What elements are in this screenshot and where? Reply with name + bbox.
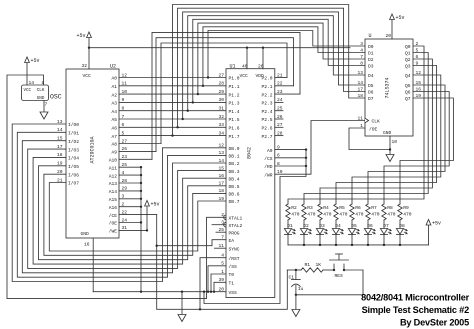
svg-text:+5v: +5v — [396, 15, 405, 21]
svg-text:U: U — [369, 33, 372, 39]
svg-text:20: 20 — [385, 33, 391, 39]
svg-text:8: 8 — [42, 80, 45, 86]
svg-text:R7: R7 — [371, 205, 377, 211]
svg-text:R8: R8 — [387, 205, 393, 211]
svg-text:D7: D7 — [368, 96, 374, 102]
svg-text:A8: A8 — [111, 142, 117, 148]
svg-text:/RST: /RST — [229, 256, 240, 262]
svg-text:P1.6: P1.6 — [229, 126, 240, 132]
svg-text:I/O0: I/O0 — [68, 122, 79, 128]
svg-text:SYNC: SYNC — [229, 246, 240, 252]
svg-text:27: 27 — [218, 72, 224, 78]
svg-text:DB.2: DB.2 — [229, 161, 240, 167]
svg-text:4: 4 — [360, 47, 363, 53]
svg-text:A5: A5 — [111, 117, 117, 123]
svg-text:23: 23 — [122, 154, 128, 160]
svg-text:3: 3 — [122, 194, 125, 200]
svg-text:D5: D5 — [368, 83, 374, 89]
svg-text:/RD: /RD — [264, 164, 273, 170]
svg-text:DB.0: DB.0 — [229, 146, 240, 152]
svg-text:13: 13 — [57, 119, 63, 125]
svg-text:A12: A12 — [109, 173, 118, 179]
svg-text:24: 24 — [122, 217, 128, 223]
svg-text:RES: RES — [335, 273, 344, 279]
svg-text:XTAL2: XTAL2 — [229, 223, 243, 229]
svg-text:28: 28 — [122, 178, 128, 184]
svg-text:DB.5: DB.5 — [229, 184, 240, 190]
svg-text:Q3: Q3 — [405, 64, 411, 70]
svg-text:11: 11 — [122, 81, 128, 87]
svg-text:T0: T0 — [229, 272, 235, 278]
svg-text:AT29C010A: AT29C010A — [90, 136, 96, 163]
svg-text:Q5: Q5 — [405, 83, 411, 89]
svg-text:470: 470 — [307, 211, 316, 217]
svg-text:22: 22 — [277, 81, 283, 87]
svg-text:I/O2: I/O2 — [68, 139, 79, 145]
svg-text:P2.4: P2.4 — [261, 109, 272, 115]
svg-text:470: 470 — [355, 211, 364, 217]
svg-text:U2: U2 — [110, 64, 116, 70]
svg-text:DB.6: DB.6 — [229, 192, 240, 198]
svg-text:21: 21 — [57, 177, 63, 183]
svg-text:15: 15 — [218, 165, 224, 171]
svg-text:I/O3: I/O3 — [68, 147, 79, 153]
svg-text:CLK: CLK — [372, 119, 381, 125]
svg-text:R4: R4 — [323, 205, 329, 211]
svg-text:R5: R5 — [339, 205, 345, 211]
svg-text:31: 31 — [218, 106, 224, 112]
svg-text:17: 17 — [218, 181, 224, 187]
svg-text:A15: A15 — [109, 197, 118, 203]
svg-text:+5v: +5v — [151, 201, 160, 207]
svg-text:12: 12 — [218, 143, 224, 149]
svg-text:R2: R2 — [291, 205, 297, 211]
svg-text:D3: D3 — [368, 64, 374, 70]
svg-text:Q6: Q6 — [405, 90, 411, 96]
svg-text:/SS: /SS — [229, 264, 238, 270]
svg-text:9: 9 — [122, 97, 125, 103]
svg-text:8042/8041 Microcontroller: 8042/8041 Microcontroller — [361, 292, 469, 302]
svg-text:29: 29 — [122, 186, 128, 192]
svg-text:26: 26 — [258, 63, 264, 69]
svg-text:P1.1: P1.1 — [229, 84, 240, 90]
svg-text:CLK: CLK — [37, 89, 45, 93]
svg-text:Q7: Q7 — [405, 96, 411, 102]
svg-text:10: 10 — [392, 139, 398, 145]
svg-text:P2.0: P2.0 — [261, 76, 272, 82]
svg-text:A6: A6 — [111, 126, 117, 132]
svg-text:A0: A0 — [111, 76, 117, 82]
svg-text:17: 17 — [57, 144, 63, 150]
svg-text:14: 14 — [29, 80, 35, 86]
svg-text:D4: D4 — [368, 73, 374, 79]
svg-text:P2.5: P2.5 — [261, 117, 272, 123]
svg-text:I/O7: I/O7 — [68, 181, 79, 187]
svg-text:By DevSter 2005: By DevSter 2005 — [400, 317, 469, 327]
svg-text:VCC: VCC — [24, 89, 32, 93]
svg-text:EA: EA — [229, 238, 235, 244]
svg-text:470: 470 — [387, 211, 396, 217]
svg-text:P1.5: P1.5 — [229, 117, 240, 123]
svg-text:18: 18 — [218, 188, 224, 194]
svg-text:A13: A13 — [109, 181, 118, 187]
svg-text:P2.2: P2.2 — [261, 92, 272, 98]
svg-text:/CE: /CE — [109, 213, 118, 219]
svg-text:I/O4: I/O4 — [68, 156, 79, 162]
svg-text:19: 19 — [218, 196, 224, 202]
svg-text:I/O1: I/O1 — [68, 131, 79, 137]
svg-text:4: 4 — [122, 170, 125, 176]
svg-text:32: 32 — [82, 63, 88, 69]
svg-text:D1: D1 — [368, 51, 374, 57]
svg-text:14: 14 — [218, 158, 224, 164]
svg-text:T1: T1 — [229, 281, 235, 287]
svg-text:DB.3: DB.3 — [229, 169, 240, 175]
svg-text:D2: D2 — [368, 57, 374, 63]
svg-text:20: 20 — [57, 169, 63, 175]
svg-text:+5v: +5v — [31, 58, 40, 64]
svg-text:A4: A4 — [111, 109, 117, 115]
svg-text:470: 470 — [291, 211, 300, 217]
svg-text:DB.4: DB.4 — [229, 176, 240, 182]
svg-text:GND: GND — [383, 130, 392, 136]
svg-text:28: 28 — [218, 81, 224, 87]
svg-text:+5v: +5v — [76, 33, 85, 39]
svg-text:D0: D0 — [368, 44, 374, 50]
svg-text:11: 11 — [357, 115, 363, 121]
svg-text:A1: A1 — [111, 84, 117, 90]
svg-text:18: 18 — [357, 93, 363, 99]
svg-text:A7: A7 — [111, 134, 117, 140]
svg-text:23: 23 — [277, 89, 283, 95]
svg-text:Q4: Q4 — [405, 73, 411, 79]
svg-text:32: 32 — [218, 114, 224, 120]
svg-text:1u: 1u — [298, 286, 304, 292]
svg-text:18: 18 — [57, 152, 63, 158]
svg-text:P1.2: P1.2 — [229, 92, 240, 98]
svg-text:U1: U1 — [230, 64, 236, 70]
svg-text:/OE: /OE — [369, 126, 378, 132]
svg-text:VCC: VCC — [240, 73, 249, 79]
svg-text:C1: C1 — [289, 274, 295, 280]
svg-text:25: 25 — [218, 227, 224, 233]
svg-text:22: 22 — [122, 209, 128, 215]
svg-text:2: 2 — [122, 202, 125, 208]
svg-text:7: 7 — [360, 54, 363, 60]
svg-text:XTAL1: XTAL1 — [229, 216, 243, 222]
svg-text:PROG: PROG — [229, 230, 240, 236]
svg-text:A9: A9 — [111, 150, 117, 156]
svg-text:P2.1: P2.1 — [261, 84, 272, 90]
svg-text:/WR: /WR — [264, 172, 273, 178]
svg-text:R9: R9 — [403, 205, 409, 211]
svg-text:P2.7: P2.7 — [261, 134, 272, 140]
svg-text:A2: A2 — [111, 92, 117, 98]
svg-text:1K: 1K — [316, 262, 322, 268]
svg-text:3: 3 — [360, 41, 363, 47]
svg-text:A16: A16 — [109, 205, 118, 211]
svg-text:R6: R6 — [355, 205, 361, 211]
svg-text:470: 470 — [371, 211, 380, 217]
svg-text:I/O6: I/O6 — [68, 172, 79, 178]
svg-text:P1.0: P1.0 — [229, 76, 240, 82]
svg-text:DB.1: DB.1 — [229, 154, 240, 160]
svg-text:D6: D6 — [368, 90, 374, 96]
svg-text:31: 31 — [122, 225, 128, 231]
svg-text:16: 16 — [218, 173, 224, 179]
svg-text:I/O5: I/O5 — [68, 164, 79, 170]
svg-text:P1.7: P1.7 — [229, 134, 240, 140]
svg-text:12: 12 — [122, 72, 128, 78]
svg-text:74LS374: 74LS374 — [385, 77, 391, 98]
svg-text:10: 10 — [122, 89, 128, 95]
svg-text:470: 470 — [403, 211, 412, 217]
svg-text:/WE: /WE — [109, 229, 118, 235]
svg-text:7: 7 — [45, 102, 48, 108]
svg-text:+5v: +5v — [432, 220, 441, 226]
svg-text:14: 14 — [57, 127, 63, 133]
svg-text:13: 13 — [357, 70, 363, 76]
svg-text:13: 13 — [218, 150, 224, 156]
svg-text:29: 29 — [218, 89, 224, 95]
svg-text:40: 40 — [242, 63, 248, 69]
svg-text:30: 30 — [218, 97, 224, 103]
svg-text:19: 19 — [57, 161, 63, 167]
svg-text:GND: GND — [81, 231, 90, 237]
svg-text:VSS: VSS — [229, 290, 238, 296]
svg-text:/CS: /CS — [264, 156, 273, 162]
svg-text:P2.6: P2.6 — [261, 126, 272, 132]
svg-text:OSC: OSC — [50, 94, 62, 101]
svg-text:R3: R3 — [307, 205, 313, 211]
svg-text:15: 15 — [57, 136, 63, 142]
svg-text:VCC: VCC — [83, 73, 92, 79]
svg-text:P2.3: P2.3 — [261, 101, 272, 107]
svg-text:A3: A3 — [111, 101, 117, 107]
svg-text:A0: A0 — [267, 148, 273, 154]
svg-text:17: 17 — [357, 86, 363, 92]
svg-text:7: 7 — [122, 114, 125, 120]
svg-text:21: 21 — [277, 72, 283, 78]
svg-text:5: 5 — [122, 130, 125, 136]
svg-text:/OE: /OE — [109, 221, 118, 227]
svg-text:6: 6 — [122, 122, 125, 128]
svg-text:26: 26 — [122, 146, 128, 152]
svg-text:14: 14 — [357, 80, 363, 86]
svg-text:A10: A10 — [109, 158, 118, 164]
svg-text:P1.3: P1.3 — [229, 101, 240, 107]
svg-text:8042: 8042 — [247, 147, 253, 159]
svg-text:11: 11 — [218, 243, 224, 249]
svg-text:Q0: Q0 — [405, 44, 411, 50]
svg-text:R1: R1 — [305, 262, 311, 268]
svg-text:27: 27 — [122, 138, 128, 144]
svg-text:DB.7: DB.7 — [229, 199, 240, 205]
svg-text:33: 33 — [218, 122, 224, 128]
svg-text:Q2: Q2 — [405, 57, 411, 63]
svg-text:8: 8 — [122, 106, 125, 112]
svg-text:A11: A11 — [109, 165, 118, 171]
svg-text:Simple Test Schematic #2: Simple Test Schematic #2 — [362, 305, 469, 315]
svg-text:470: 470 — [339, 211, 348, 217]
svg-text:A14: A14 — [109, 189, 118, 195]
svg-text:16: 16 — [84, 241, 90, 247]
svg-text:Q1: Q1 — [405, 51, 411, 57]
svg-text:8: 8 — [360, 60, 363, 66]
svg-text:P1.4: P1.4 — [229, 109, 240, 115]
svg-text:470: 470 — [323, 211, 332, 217]
svg-text:34: 34 — [218, 130, 224, 136]
svg-text:25: 25 — [122, 162, 128, 168]
